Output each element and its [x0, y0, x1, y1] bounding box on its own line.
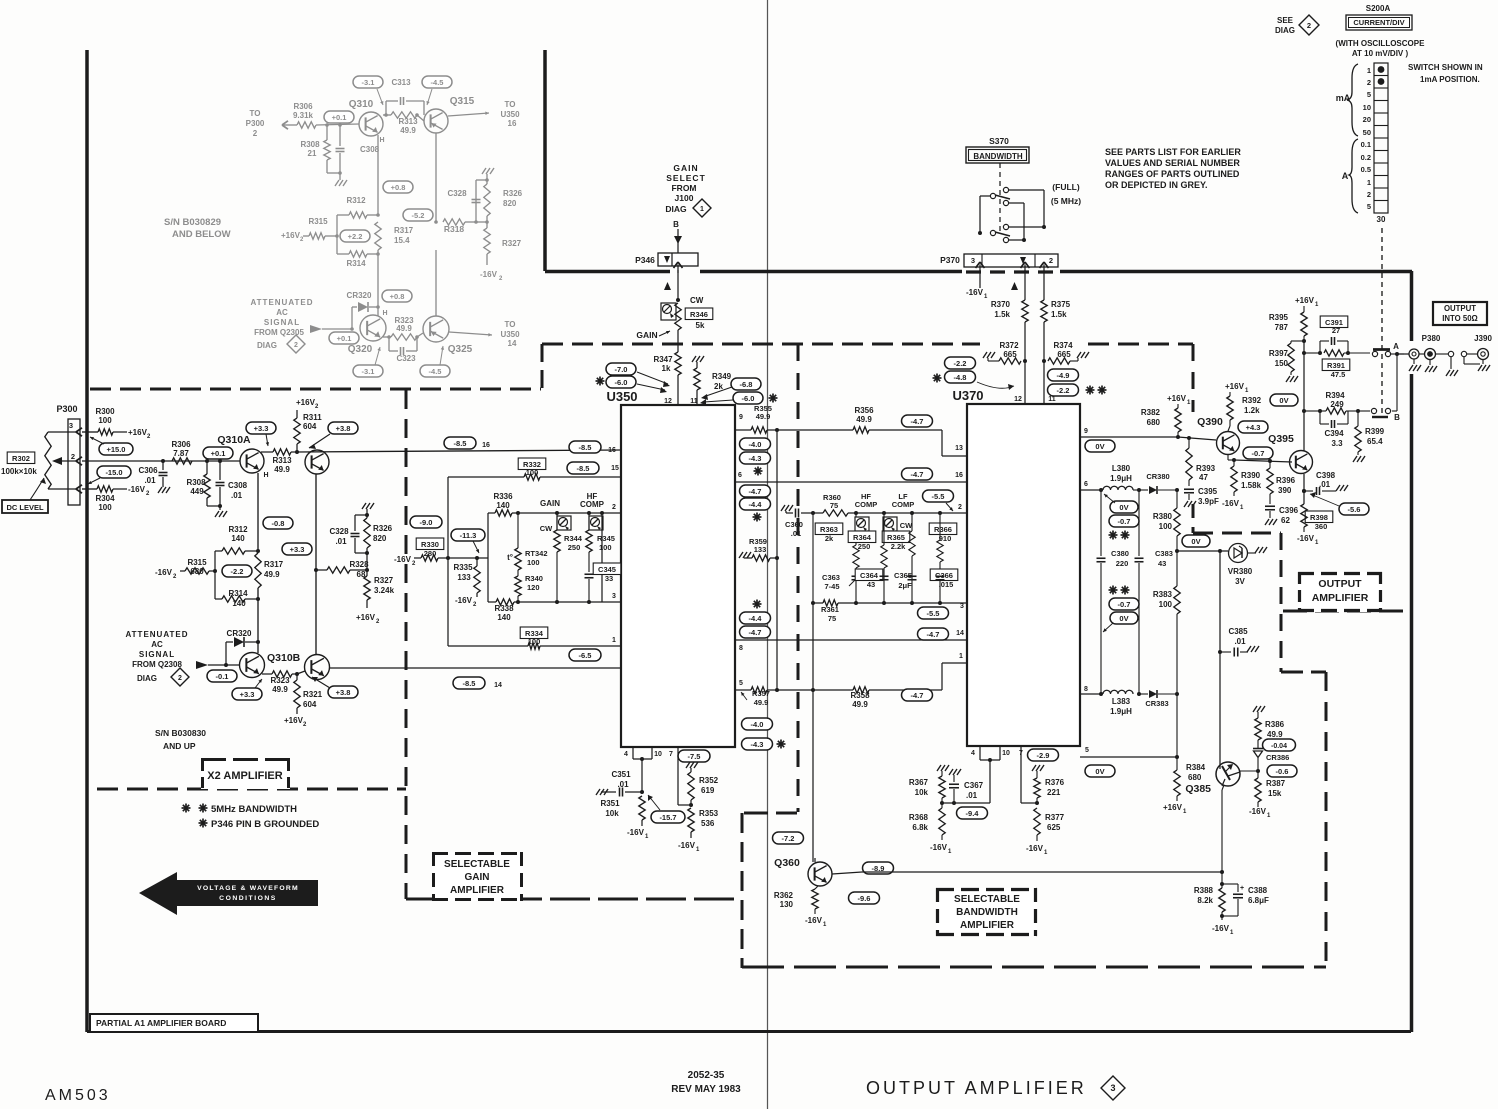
svg-text:5: 5	[1085, 747, 1089, 754]
svg-text:10: 10	[1002, 750, 1010, 757]
svg-text:R300: R300	[95, 407, 115, 416]
svg-text:SELECTABLE: SELECTABLE	[954, 894, 1020, 905]
svg-text:R352: R352	[699, 776, 719, 785]
svg-text:-0.1: -0.1	[216, 672, 229, 681]
svg-text:1: 1	[612, 637, 616, 644]
connector P346 pin arrow	[674, 262, 679, 268]
wire B to A junction	[1392, 410, 1397, 412]
resistor R363 2k boxed	[815, 523, 843, 535]
oval -0.04	[1263, 739, 1296, 751]
comp network top rail y=513	[813, 512, 823, 514]
svg-text:-5.5: -5.5	[927, 609, 940, 618]
svg-text:14: 14	[956, 630, 964, 637]
svg-text:R306: R306	[293, 102, 313, 111]
svg-text:100: 100	[98, 503, 112, 512]
oval -15.0	[97, 466, 131, 478]
oval 0V pin9	[1085, 440, 1115, 452]
grey ground below C308	[339, 173, 341, 180]
svg-text:U370: U370	[952, 388, 983, 403]
grey wire Q310 emitter vertical	[377, 135, 379, 215]
wire pin16 net	[297, 450, 621, 452]
svg-text:CW: CW	[540, 524, 553, 533]
ground below C308 R308	[219, 506, 221, 510]
svg-text:Q385: Q385	[1185, 783, 1211, 795]
fold line (page center crease)	[767, 0, 769, 1109]
svg-text:C380: C380	[1111, 549, 1129, 558]
connector P300 pin arrow bottom	[76, 485, 82, 489]
svg-text:10k: 10k	[605, 809, 619, 818]
svg-text:+16V: +16V	[1167, 394, 1187, 403]
ground P380	[1429, 360, 1431, 365]
svg-text:R338: R338	[494, 604, 514, 613]
connector P300 pin 3 arrow	[76, 428, 82, 432]
grey input arrow	[310, 325, 322, 333]
oval -2.2 pin11 with asterisks	[1048, 384, 1079, 396]
svg-text:-5.2: -5.2	[412, 211, 425, 220]
oval +15.0	[99, 443, 133, 455]
svg-text:100: 100	[98, 416, 112, 425]
svg-text:+16V: +16V	[1225, 382, 1245, 391]
svg-text:A: A	[1393, 342, 1399, 351]
potentiometer HF COMP pot R363	[855, 517, 869, 531]
svg-text:-0.7: -0.7	[1252, 449, 1265, 458]
oval +4.3	[1238, 421, 1268, 433]
svg-text:C360: C360	[785, 520, 803, 529]
svg-text:5MHz BANDWIDTH: 5MHz BANDWIDTH	[211, 804, 297, 815]
svg-text:625: 625	[1047, 823, 1061, 832]
svg-text:C351: C351	[611, 770, 631, 779]
svg-text:2: 2	[253, 129, 258, 138]
svg-text:49.9: 49.9	[396, 324, 412, 333]
svg-text:-16V: -16V	[128, 485, 146, 494]
svg-text:.01: .01	[1234, 637, 1246, 646]
selectable bandwidth region bottom dashed y=967	[742, 966, 1326, 969]
wire rail Q395 emitter down	[1303, 474, 1305, 504]
svg-text:-8.5: -8.5	[579, 443, 592, 452]
svg-text:15k: 15k	[1268, 789, 1282, 798]
svg-text:FROM: FROM	[671, 183, 696, 193]
svg-text:R318: R318	[444, 224, 465, 234]
svg-text:-9.4: -9.4	[966, 809, 980, 818]
svg-text:H: H	[263, 472, 268, 479]
svg-text:P300: P300	[246, 119, 265, 128]
svg-text:140: 140	[496, 501, 510, 510]
resistor R330 280 boxed	[416, 538, 444, 550]
svg-text:R326: R326	[503, 189, 523, 198]
svg-text:R388: R388	[1194, 886, 1214, 895]
svg-text:R346: R346	[690, 310, 708, 319]
svg-text:-0.04: -0.04	[1271, 743, 1287, 750]
svg-text:C306: C306	[138, 466, 158, 475]
svg-text:R344: R344	[564, 534, 583, 543]
capacitor C364 43 boxed	[855, 569, 883, 581]
svg-text:2: 2	[1367, 190, 1371, 199]
svg-text:390: 390	[1278, 486, 1292, 495]
svg-text:OR DEPICTED IN GREY.: OR DEPICTED IN GREY.	[1105, 180, 1208, 190]
svg-text:5k: 5k	[696, 321, 705, 330]
svg-text:C394: C394	[1324, 429, 1344, 438]
svg-text:140: 140	[231, 534, 245, 543]
svg-text:CURRENT/DIV: CURRENT/DIV	[1353, 18, 1404, 27]
comp network bottom rail y=603 pin3 net	[813, 602, 823, 604]
selectable bandwidth region right dashed vertical x=1326	[1325, 672, 1328, 967]
svg-text:AND UP: AND UP	[163, 741, 196, 751]
selectable gain region bottom dashed border y=899	[406, 898, 740, 901]
svg-text:250: 250	[568, 543, 581, 552]
switch linkage dashed	[999, 163, 1001, 232]
svg-text:21: 21	[308, 149, 317, 158]
svg-text:Q325: Q325	[448, 344, 473, 355]
svg-text:CW: CW	[690, 296, 704, 305]
svg-text:+0.1: +0.1	[337, 334, 352, 343]
svg-text:A: A	[1342, 171, 1349, 181]
svg-text:R366: R366	[934, 525, 952, 534]
svg-text:TO: TO	[505, 320, 516, 329]
oval -11.3	[451, 529, 485, 541]
svg-text:REV MAY 1983: REV MAY 1983	[671, 1084, 741, 1095]
output amplifier region dashed horizontal y=533	[1193, 532, 1281, 535]
svg-text:SIGNAL: SIGNAL	[264, 318, 300, 327]
svg-text:-2.2: -2.2	[1057, 386, 1070, 395]
grey oval +0.1	[324, 111, 354, 123]
svg-text:1: 1	[1367, 178, 1371, 187]
svg-text:360: 360	[1315, 522, 1328, 531]
svg-text:R374: R374	[1053, 341, 1073, 350]
label DC LEVEL boxed	[2, 500, 48, 513]
svg-text:C395: C395	[1198, 487, 1218, 496]
svg-text:1.58k: 1.58k	[1241, 481, 1262, 490]
svg-text:R393: R393	[1196, 464, 1216, 473]
svg-text:S/N B030829: S/N B030829	[164, 217, 221, 228]
svg-text:R313: R313	[272, 456, 292, 465]
svg-text:49.9: 49.9	[756, 412, 771, 421]
svg-text:3.9pF: 3.9pF	[1198, 497, 1219, 506]
svg-text:-4.9: -4.9	[1057, 371, 1070, 380]
svg-text:P380: P380	[1422, 334, 1441, 343]
svg-text:+3.8: +3.8	[336, 424, 351, 433]
svg-text:BANDWIDTH: BANDWIDTH	[973, 152, 1023, 161]
svg-text:S200A: S200A	[1366, 4, 1391, 13]
svg-text:CW: CW	[900, 521, 913, 530]
svg-text:-6.8: -6.8	[740, 380, 753, 389]
capacitor C345 33 boxed	[593, 563, 621, 575]
wire pin4 to R367 C367	[989, 760, 991, 803]
svg-text:449: 449	[190, 487, 204, 496]
svg-text:-8.5: -8.5	[454, 439, 467, 448]
svg-text:100: 100	[599, 543, 612, 552]
svg-text:DIAG: DIAG	[257, 341, 277, 350]
grey oval +2.2	[340, 230, 370, 242]
oval +3.3 upper	[246, 422, 276, 434]
svg-text:Q360: Q360	[774, 857, 800, 869]
svg-text:-4.3: -4.3	[749, 454, 762, 463]
oval +3.3 lower	[232, 688, 262, 700]
svg-text:mA: mA	[1336, 93, 1351, 103]
svg-text:C388: C388	[1248, 886, 1268, 895]
svg-text:-7.5: -7.5	[688, 752, 701, 761]
svg-text:47.5: 47.5	[1331, 370, 1346, 379]
svg-text:8: 8	[739, 645, 743, 652]
svg-text:R315: R315	[187, 558, 207, 567]
svg-text:49.9: 49.9	[852, 700, 868, 709]
svg-text:6: 6	[1084, 481, 1088, 488]
oval -0.7 Q390	[1243, 447, 1273, 459]
grey oval +0.1 lower	[329, 332, 359, 344]
resistor R391 47.5 boxed	[1324, 350, 1344, 356]
svg-text:U350: U350	[500, 110, 520, 119]
svg-text:+3.3: +3.3	[254, 424, 269, 433]
IC U350 body	[621, 405, 735, 747]
svg-text:0V: 0V	[1095, 442, 1104, 451]
svg-text:.01: .01	[335, 537, 347, 546]
svg-text:3: 3	[960, 603, 964, 610]
svg-text:S/N B030830: S/N B030830	[155, 728, 206, 738]
svg-text:CONDITIONS: CONDITIONS	[219, 895, 277, 902]
svg-text:-8.5: -8.5	[577, 464, 590, 473]
svg-text:20: 20	[1363, 115, 1371, 124]
svg-text:H: H	[382, 310, 387, 317]
oval -9.6	[849, 892, 880, 904]
svg-text:R317: R317	[394, 226, 414, 235]
board border left	[85, 50, 89, 1032]
svg-text:10: 10	[654, 751, 662, 758]
svg-text:2: 2	[1049, 256, 1053, 265]
svg-text:120: 120	[527, 583, 540, 592]
svg-text:Q310A: Q310A	[217, 434, 251, 446]
svg-text:-6.0: -6.0	[742, 394, 755, 403]
svg-text:R321: R321	[303, 690, 323, 699]
svg-text:R345: R345	[597, 534, 615, 543]
svg-text:R351: R351	[600, 799, 620, 808]
svg-text:R372: R372	[999, 341, 1019, 350]
oval -4.0 pin9	[740, 438, 771, 450]
svg-text:-9.0: -9.0	[420, 518, 433, 527]
svg-text:FROM Q2308: FROM Q2308	[132, 660, 182, 669]
svg-text:49.9: 49.9	[1267, 730, 1283, 739]
svg-text:0V: 0V	[1119, 614, 1128, 623]
junction dots top rail	[516, 511, 520, 515]
svg-text:R390: R390	[1241, 471, 1261, 480]
svg-text:DC LEVEL: DC LEVEL	[6, 503, 44, 512]
svg-text:-2.2: -2.2	[231, 567, 244, 576]
svg-text:11: 11	[1048, 396, 1056, 403]
selectable gain region right dashed vertical x=742	[741, 813, 744, 968]
svg-text:-16V: -16V	[678, 841, 696, 850]
svg-text:1.9μH: 1.9μH	[1110, 707, 1132, 716]
oval 0V mid	[1182, 535, 1210, 547]
label box SELECTABLE BANDWIDTH AMPLIFIER	[936, 888, 1037, 936]
svg-text:-16V: -16V	[394, 555, 412, 564]
svg-text:R387: R387	[1266, 779, 1286, 788]
svg-text:GAIN: GAIN	[636, 330, 657, 340]
svg-text:3V: 3V	[1235, 577, 1245, 586]
grey wire to U350 14	[449, 332, 492, 335]
svg-text:+3.3: +3.3	[290, 545, 305, 554]
oval -6.0 left	[596, 380, 605, 382]
oval -2.9	[1028, 749, 1059, 761]
oval 0V L383 with arrow	[1110, 612, 1138, 624]
svg-text:X2 AMPLIFIER: X2 AMPLIFIER	[207, 770, 282, 782]
grey oval -5.2	[403, 209, 433, 221]
grey oval -4.5 lower	[420, 365, 450, 377]
svg-text:3: 3	[69, 421, 73, 430]
svg-text:536: 536	[701, 819, 715, 828]
oval +0.1 at Q310A base	[203, 447, 233, 459]
svg-text:OUTPUT AMPLIFIER: OUTPUT AMPLIFIER	[866, 1078, 1087, 1098]
svg-text:+15.0: +15.0	[107, 445, 126, 454]
wire CR320 to Q310B collector	[257, 642, 259, 653]
svg-text:680: 680	[1188, 773, 1202, 782]
oval -8.9	[863, 862, 894, 874]
svg-text:0V: 0V	[1191, 537, 1200, 546]
oval -4.8 with asterisk	[933, 377, 942, 379]
svg-text:-16V: -16V	[455, 596, 473, 605]
svg-text:+16V: +16V	[128, 428, 148, 437]
connector P300 pin 2 arrow	[76, 457, 82, 461]
title diamond 3	[1101, 1076, 1125, 1100]
svg-text:P300: P300	[56, 404, 77, 414]
svg-text:-3.1: -3.1	[362, 78, 375, 87]
node R308 top	[205, 459, 209, 463]
svg-text:COMP: COMP	[580, 500, 605, 509]
wire Q385 emitter down	[1222, 785, 1224, 790]
svg-text:+16V: +16V	[296, 398, 316, 407]
svg-text:-4.0: -4.0	[749, 440, 762, 449]
label box X2 AMPLIFIER	[201, 758, 290, 789]
svg-text:820: 820	[503, 199, 517, 208]
svg-text:2: 2	[612, 504, 616, 511]
svg-text:TO: TO	[505, 100, 516, 109]
svg-text:C313: C313	[391, 78, 411, 87]
svg-text:ATTENUATED: ATTENUATED	[250, 298, 313, 307]
svg-text:-4.7: -4.7	[749, 487, 762, 496]
svg-text:3.24k: 3.24k	[374, 586, 395, 595]
U370 bottom tab pins 4 10	[979, 746, 981, 760]
svg-text:VR380: VR380	[1228, 567, 1253, 576]
label box OUTPUT AMPLIFIER	[1298, 572, 1382, 612]
ground right of VR380	[1255, 547, 1259, 553]
svg-text:B: B	[1394, 413, 1400, 422]
svg-text:100: 100	[1159, 600, 1173, 609]
svg-text:R395: R395	[1269, 313, 1289, 322]
svg-text:100k×10k: 100k×10k	[1, 467, 37, 476]
output region dashed horizontal y=611 to border	[1283, 610, 1404, 613]
S200A linkage dashed vertical	[1381, 228, 1383, 414]
svg-text:R392: R392	[1242, 396, 1262, 405]
svg-text:75: 75	[828, 614, 836, 623]
wire 0V node to VR380	[1177, 550, 1228, 552]
svg-text:3: 3	[971, 256, 975, 265]
svg-text:AT 10 mV/DIV ): AT 10 mV/DIV )	[1352, 49, 1409, 58]
oval -0.8	[263, 517, 293, 529]
svg-text:S370: S370	[989, 136, 1009, 146]
wire ladder to CR320	[257, 588, 259, 642]
svg-text:820: 820	[373, 534, 387, 543]
svg-text:250: 250	[858, 542, 871, 551]
svg-text:-2.9: -2.9	[1037, 751, 1050, 760]
svg-text:CR380: CR380	[1146, 472, 1169, 481]
svg-text:-4.7: -4.7	[911, 691, 924, 700]
svg-text:0.2: 0.2	[1361, 153, 1371, 162]
svg-text:-4.5: -4.5	[431, 78, 444, 87]
svg-text:SELECT: SELECT	[666, 173, 706, 183]
svg-text:2k: 2k	[825, 534, 834, 543]
svg-text:INTO 50Ω: INTO 50Ω	[1442, 314, 1478, 323]
board border bottom y=1032	[87, 1030, 1411, 1033]
svg-text:43: 43	[1158, 559, 1166, 568]
wire R358 net pin5 to U370 pin1	[777, 689, 853, 691]
oval -0.1	[207, 670, 237, 682]
svg-text:-11.3: -11.3	[460, 531, 477, 540]
X2 / selectable-gain divider dashed vertical x=406	[405, 390, 408, 899]
label CURRENT/DIV boxed	[1346, 15, 1412, 30]
oval -4.0 pin5	[742, 718, 773, 730]
svg-text:(5 MHz): (5 MHz)	[1051, 196, 1081, 206]
svg-text:CR320: CR320	[227, 629, 252, 638]
U350 bottom tab pins 4 10	[632, 747, 634, 759]
wire VR380 node down to Q385 base	[1219, 551, 1221, 769]
svg-text:0V: 0V	[1095, 767, 1104, 776]
wire pin15 net	[448, 476, 524, 478]
wire Q385 collector node	[1239, 770, 1258, 772]
svg-text:R336: R336	[493, 492, 513, 501]
svg-text:R349: R349	[712, 372, 732, 381]
svg-text:619: 619	[701, 786, 715, 795]
svg-text:16: 16	[482, 442, 490, 449]
svg-text:.01: .01	[231, 491, 243, 500]
svg-text:-2.2: -2.2	[954, 359, 967, 368]
svg-text:VOLTAGE & WAVEFORM: VOLTAGE & WAVEFORM	[197, 885, 299, 892]
svg-text:TO: TO	[250, 109, 261, 118]
svg-text:R386: R386	[1265, 720, 1285, 729]
svg-text:-0.7: -0.7	[1118, 517, 1131, 526]
svg-text:R367: R367	[909, 778, 929, 787]
svg-text:-16V: -16V	[1212, 924, 1230, 933]
svg-text:220: 220	[1116, 559, 1129, 568]
svg-text:Q310: Q310	[349, 99, 374, 110]
svg-text:COMP: COMP	[892, 500, 915, 509]
oval 0V R394	[1270, 394, 1298, 406]
comp network rail down to Q360	[812, 513, 814, 603]
svg-text:7: 7	[669, 751, 673, 758]
resistor R349 2k with ground	[692, 356, 696, 362]
svg-text:C345: C345	[598, 565, 616, 574]
oval -6.0 right with asterisk	[733, 392, 763, 404]
oval -5.6 with arrow	[1339, 503, 1369, 515]
svg-text:OUTPUT: OUTPUT	[1444, 304, 1476, 313]
svg-text:R396: R396	[1276, 476, 1296, 485]
svg-text:75: 75	[830, 501, 838, 510]
svg-text:9.31k: 9.31k	[293, 111, 314, 120]
svg-text:16: 16	[608, 447, 616, 454]
svg-text:PARTIAL A1 AMPLIFIER BOARD: PARTIAL A1 AMPLIFIER BOARD	[96, 1018, 226, 1028]
wire pin8 net L383	[1080, 693, 1101, 695]
svg-text:-16V: -16V	[1297, 534, 1315, 543]
svg-text:L383: L383	[1112, 697, 1131, 706]
svg-text:8: 8	[1084, 686, 1088, 693]
X2 amplifier region top dashed border y=389	[90, 388, 541, 391]
svg-text:C383: C383	[1155, 549, 1173, 558]
oval -4.7 pin6	[740, 485, 771, 497]
svg-text:L380: L380	[1112, 464, 1131, 473]
wire Q390 emitter to Q395 base	[1234, 460, 1292, 462]
grey ground above C328	[486, 174, 488, 180]
oval -4.9 U370 pin11	[1048, 369, 1079, 381]
svg-text:R327: R327	[374, 576, 394, 585]
svg-text:C308: C308	[228, 481, 248, 490]
grey oval +0.8 upper	[383, 181, 413, 193]
svg-text:R384: R384	[1186, 763, 1206, 772]
